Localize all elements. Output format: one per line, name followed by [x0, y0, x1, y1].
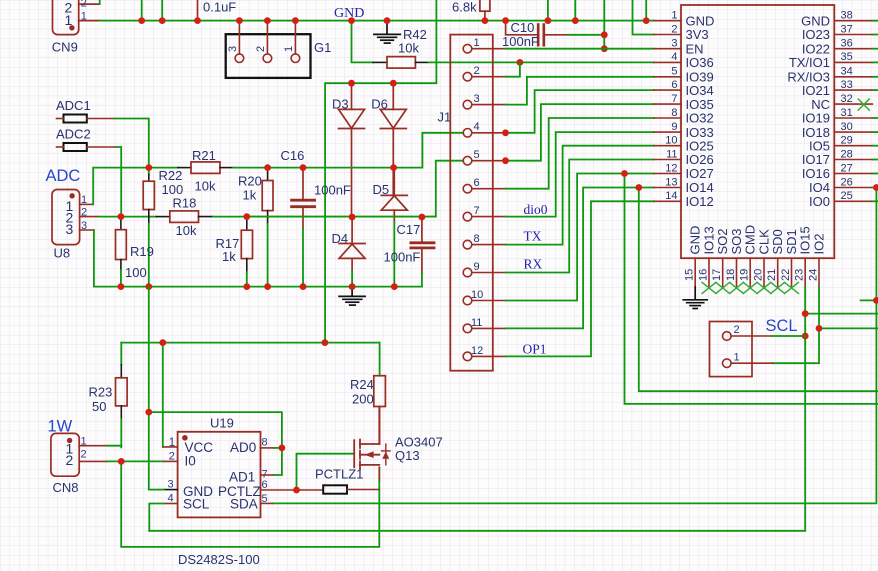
IC ESP32 module body	[681, 5, 834, 258]
svg-text:1k: 1k	[243, 188, 257, 203]
no-connect X on pin 17	[716, 282, 730, 293]
svg-text:100: 100	[125, 265, 147, 280]
pin U19-5 SDA	[261, 502, 273, 504]
svg-text:20: 20	[753, 269, 765, 281]
svg-text:IO19: IO19	[802, 111, 830, 126]
wire right stub pin 28	[872, 159, 878, 161]
svg-text:2: 2	[66, 452, 74, 468]
svg-text:SO2: SO2	[715, 228, 730, 254]
wire J1 p1 to EN	[506, 48, 654, 50]
pin 10 lead	[654, 145, 681, 147]
wire SCL conn pin2 to IO15 column	[773, 335, 806, 337]
wire CN9 pin1 lead	[79, 20, 100, 22]
svg-text:IO2: IO2	[812, 234, 827, 255]
wire J1 p7 dio0 to IO33	[506, 132, 654, 217]
svg-text:AD0: AD0	[230, 440, 256, 455]
svg-text:D4: D4	[332, 231, 349, 246]
wire VCC drop	[162, 343, 164, 447]
svg-text:3: 3	[168, 479, 174, 491]
svg-text:16: 16	[698, 269, 710, 281]
svg-text:4: 4	[671, 51, 677, 63]
pin 18 lead	[736, 258, 738, 287]
svg-text:SD0: SD0	[770, 229, 785, 254]
svg-text:IO32: IO32	[686, 111, 714, 126]
svg-text:R24: R24	[350, 377, 374, 392]
svg-text:12: 12	[665, 162, 677, 174]
wire I0 strong pullup loop	[121, 461, 379, 547]
resistor R21	[149, 167, 178, 169]
pin U19-7 AD1	[261, 474, 275, 476]
svg-text:IO27: IO27	[686, 166, 714, 181]
wire CN8 pin2	[79, 460, 107, 462]
junction dots DS2482 section	[118, 339, 329, 493]
svg-text:1: 1	[734, 352, 740, 364]
svg-text:CMD: CMD	[743, 225, 758, 255]
pin 9 lead	[654, 131, 681, 133]
svg-text:21: 21	[766, 269, 778, 281]
wire IO36 net y=62.4	[428, 61, 654, 63]
svg-text:15: 15	[684, 269, 696, 281]
wire IO4 to SDA column	[272, 188, 876, 504]
svg-text:TX: TX	[524, 229, 542, 244]
wire PCTLZ to gate	[297, 454, 355, 490]
svg-text:19: 19	[739, 269, 751, 281]
resistor R42	[352, 21, 374, 63]
wire GND drop	[148, 287, 150, 490]
svg-text:38: 38	[841, 10, 853, 22]
pin G1-1	[294, 21, 296, 54]
diode D5	[381, 168, 407, 222]
wire right stub pin 34	[872, 76, 878, 78]
pin 37 lead	[834, 34, 872, 36]
junction dots on top rail	[138, 17, 649, 66]
pin 14 lead	[654, 200, 681, 202]
svg-text:6.8k: 6.8k	[452, 0, 477, 15]
svg-text:I0: I0	[185, 454, 196, 469]
svg-text:2: 2	[81, 449, 87, 461]
resistor R24	[379, 343, 381, 376]
wire ADC2 to divider	[87, 146, 116, 148]
svg-text:100nF: 100nF	[314, 183, 351, 198]
svg-text:3V3: 3V3	[686, 27, 709, 42]
resistor R19	[120, 217, 122, 230]
svg-text:dio0: dio0	[524, 202, 548, 217]
svg-text:C17: C17	[397, 222, 421, 237]
wire right stub pin 37	[872, 34, 878, 36]
wire main GND rail y=20.6	[100, 20, 654, 22]
svg-text:8: 8	[474, 233, 480, 245]
svg-text:TX/IO1: TX/IO1	[789, 55, 830, 70]
capacitor 0.1uF lead	[197, 0, 199, 21]
svg-text:3: 3	[66, 221, 74, 237]
node C10 right junction	[601, 31, 608, 38]
wire Q13 drain down	[378, 467, 380, 480]
svg-text:6: 6	[474, 177, 480, 189]
wire SCL branch right	[805, 313, 878, 315]
pin 12 lead	[654, 173, 681, 175]
svg-text:1: 1	[283, 46, 295, 52]
pin 7 lead	[654, 103, 681, 105]
svg-text:AD1: AD1	[229, 470, 255, 485]
wire IO15/SCL net vertical	[149, 287, 805, 531]
wire J1 p4 to IO34	[506, 90, 654, 133]
svg-text:14: 14	[665, 190, 677, 202]
wire vertical drop x=547.9	[547, 0, 549, 21]
svg-text:2: 2	[255, 46, 267, 52]
svg-text:SDA: SDA	[230, 497, 258, 512]
pin U19-3 GND	[164, 489, 178, 491]
svg-text:28: 28	[841, 148, 853, 160]
svg-text:GND: GND	[801, 13, 830, 28]
svg-text:36: 36	[841, 38, 853, 50]
wire J1 p10 to IO27	[506, 174, 654, 301]
pin 5 lead	[654, 76, 681, 78]
svg-text:IO5: IO5	[809, 138, 830, 153]
svg-text:9: 9	[474, 261, 480, 273]
svg-text:33: 33	[841, 79, 853, 91]
wire right stub pin 27	[872, 173, 878, 175]
no-connect X on NC pin32	[702, 99, 869, 293]
junction dots J1 area	[502, 129, 642, 191]
no-connect X on pin 19	[743, 282, 757, 293]
pin U19-4 SCL	[164, 503, 178, 505]
svg-text:RX: RX	[524, 257, 543, 272]
svg-text:17: 17	[711, 269, 723, 281]
ground symbol (ESP pin15)	[683, 287, 707, 309]
wire J1 p12 OP1 to IO12	[506, 201, 654, 356]
svg-text:C16: C16	[281, 148, 305, 163]
svg-text:23: 23	[794, 269, 806, 281]
wire right stub pin 35	[872, 61, 878, 63]
pin 8 lead	[654, 117, 681, 119]
pin 38 lead	[834, 20, 872, 22]
pin 3 lead	[654, 48, 681, 50]
svg-text:IO16: IO16	[802, 166, 830, 181]
svg-text:GND: GND	[688, 226, 703, 255]
node CN9 pin1 dot	[69, 25, 74, 30]
no-connect X on pin 21	[771, 282, 785, 293]
component PCTLZ1	[297, 489, 324, 491]
pin 29 lead	[834, 145, 872, 147]
connector U8	[52, 190, 80, 245]
svg-text:12: 12	[471, 345, 483, 357]
svg-text:3: 3	[671, 38, 677, 50]
svg-text:13: 13	[665, 176, 677, 188]
svg-text:R20: R20	[238, 174, 262, 189]
wire ADC2 clamp net y=217	[247, 216, 436, 218]
svg-text:1: 1	[671, 10, 677, 22]
svg-text:25: 25	[841, 190, 853, 202]
svg-text:PCTLZ1: PCTLZ1	[315, 467, 363, 482]
wire J1 p11 to IO14	[506, 188, 654, 329]
connector G1 box	[226, 34, 311, 78]
svg-text:2: 2	[474, 65, 480, 77]
no-connect X on pin 18	[730, 282, 744, 293]
svg-text:IO25: IO25	[686, 138, 714, 153]
pin G1-3	[235, 21, 300, 63]
diode D4	[339, 217, 365, 271]
pin 11 lead	[654, 159, 681, 161]
no-connect X on pin 22	[785, 282, 799, 293]
svg-text:11: 11	[666, 148, 677, 160]
resistor R18	[156, 216, 170, 218]
svg-text:ADC1: ADC1	[56, 98, 91, 113]
svg-text:1: 1	[474, 37, 480, 49]
svg-text:30: 30	[841, 121, 853, 133]
pin 4 lead	[654, 61, 681, 63]
wire right stub pin 36	[872, 48, 878, 50]
wire 3V3 vertical x=436.4	[325, 0, 436, 343]
wire right stub pin 38	[872, 20, 878, 22]
wire vertical drop x=646.2	[645, 0, 647, 21]
pins J1 1-12	[463, 44, 505, 360]
svg-text:7: 7	[474, 205, 480, 217]
svg-text:IO14: IO14	[686, 180, 714, 195]
svg-text:DS2482S-100: DS2482S-100	[178, 552, 260, 567]
svg-text:4: 4	[474, 121, 480, 133]
svg-text:24: 24	[808, 269, 820, 281]
svg-text:R19: R19	[130, 244, 154, 259]
pin U19-6 PCTLZ	[261, 489, 297, 491]
svg-text:D6: D6	[371, 97, 388, 112]
capacitor C16	[302, 168, 304, 199]
junction dots ADC section	[118, 164, 426, 290]
wire right stub pin 30	[872, 131, 878, 133]
wire CN9 pin2 up	[99, 0, 101, 4]
svg-text:IO15: IO15	[798, 226, 813, 254]
pin 26 lead	[834, 187, 872, 189]
svg-text:R18: R18	[173, 196, 197, 211]
node D6 anode dot	[390, 80, 397, 87]
svg-text:35: 35	[841, 51, 853, 63]
wire CN9 pin2 lead	[79, 3, 100, 5]
svg-text:U19: U19	[210, 416, 234, 431]
wire IO27 branch down	[625, 174, 878, 404]
svg-text:CN8: CN8	[53, 480, 79, 495]
svg-text:IO17: IO17	[802, 152, 830, 167]
wire vertical 3V3 to ESP pin2	[633, 0, 654, 35]
svg-text:OP1: OP1	[523, 342, 547, 357]
wire J1 p3 to IO39	[506, 77, 654, 105]
pin 25 lead	[834, 200, 872, 202]
wire U8 pin2	[80, 216, 99, 218]
ground symbol (top)	[374, 21, 400, 43]
svg-text:R22: R22	[159, 168, 183, 183]
svg-text:SCL: SCL	[183, 497, 210, 512]
svg-text:1k: 1k	[222, 249, 236, 264]
svg-text:10: 10	[471, 289, 483, 301]
wire J1 p8 TX to IO25	[506, 146, 654, 245]
wire IO14 branch down	[639, 188, 878, 392]
wire I0 net	[121, 460, 164, 462]
svg-text:SCL: SCL	[766, 317, 798, 335]
wire J1 p5 to IO35	[506, 104, 654, 161]
svg-text:18: 18	[725, 269, 737, 281]
diode D3	[339, 83, 365, 217]
svg-text:GND: GND	[686, 13, 715, 28]
svg-text:IO12: IO12	[686, 194, 714, 209]
svg-text:2: 2	[81, 0, 87, 9]
resistor R22	[148, 168, 150, 175]
pin 13 lead	[654, 187, 681, 189]
svg-text:ADC2: ADC2	[56, 127, 91, 142]
svg-text:100nF: 100nF	[384, 250, 421, 265]
svg-text:100nF: 100nF	[502, 34, 539, 49]
svg-text:1: 1	[81, 11, 87, 23]
pin U19-2 I0	[164, 460, 178, 462]
svg-text:C10: C10	[511, 20, 535, 35]
svg-text:2: 2	[734, 324, 740, 336]
svg-text:29: 29	[841, 135, 853, 147]
svg-text:10k: 10k	[195, 179, 216, 194]
pin 30 lead	[834, 131, 872, 133]
svg-text:3: 3	[474, 93, 480, 105]
pin 31 lead	[834, 117, 872, 119]
pin G1-2	[266, 21, 268, 54]
wire AD0/AD1 tie	[149, 412, 282, 448]
svg-text:2: 2	[671, 23, 677, 35]
svg-text:8: 8	[671, 107, 677, 119]
capacitor C10	[506, 21, 568, 46]
svg-text:IO34: IO34	[686, 83, 714, 98]
svg-text:D5: D5	[373, 182, 390, 197]
pin 23 lead	[804, 258, 806, 287]
svg-text:U8: U8	[54, 246, 71, 261]
wire ADC1 net y=167.6	[233, 133, 463, 168]
svg-text:10k: 10k	[398, 41, 419, 56]
pin 21 lead	[777, 258, 779, 287]
connector J1 box	[450, 35, 493, 371]
svg-text:J1: J1	[438, 110, 452, 125]
wire right stub pin 31	[872, 117, 878, 119]
wire J1 p9 RX to IO26	[506, 160, 654, 273]
wire J1 p6 to IO32	[506, 118, 654, 189]
pin 28 lead	[834, 159, 872, 161]
wire vertical drop x=575.3	[574, 0, 576, 21]
svg-text:9: 9	[671, 121, 677, 133]
junction dots right column	[802, 184, 878, 339]
pin 34 lead	[834, 76, 872, 78]
svg-text:R21: R21	[192, 148, 216, 163]
wire vertical drop x=162.2	[161, 0, 163, 21]
wire U8 pin3	[80, 229, 94, 231]
svg-text:R23: R23	[89, 385, 113, 400]
wire U8 pin1	[80, 203, 94, 205]
svg-text:IO0: IO0	[809, 194, 830, 209]
svg-text:26: 26	[841, 176, 853, 188]
svg-text:6: 6	[671, 79, 677, 91]
svg-text:8: 8	[262, 437, 268, 449]
wire IO2 branch right	[819, 327, 878, 329]
svg-text:27: 27	[841, 162, 853, 174]
svg-text:10k: 10k	[176, 223, 197, 238]
svg-text:ADC: ADC	[46, 167, 81, 185]
pin 24 lead	[818, 258, 820, 287]
connector CN8	[51, 433, 79, 476]
wire vertical EN x=604.3	[603, 0, 605, 49]
resistor R23	[120, 343, 122, 365]
transistor Q13 AO3407	[354, 407, 390, 470]
svg-text:7: 7	[671, 93, 677, 105]
pin 6 lead	[654, 89, 681, 91]
pin 1 lead	[654, 20, 681, 22]
wire right stub pin 33	[872, 89, 878, 91]
svg-text:11: 11	[471, 317, 482, 329]
pin 15 lead	[694, 258, 696, 287]
svg-text:IO4: IO4	[809, 180, 830, 195]
pin 20 lead	[763, 258, 765, 287]
wire vertical drop x=141.7	[141, 0, 143, 21]
svg-text:NC: NC	[811, 97, 830, 112]
svg-text:IO26: IO26	[686, 152, 714, 167]
svg-text:IO35: IO35	[686, 97, 714, 112]
no-connect X on pin 16	[702, 282, 716, 293]
node EN junction	[601, 45, 608, 52]
pin U19-1 VCC	[163, 446, 178, 448]
pin 19 lead	[749, 258, 751, 287]
resistor R20	[267, 168, 269, 181]
pin 33 lead	[834, 89, 872, 91]
resistor 6.8k	[480, 0, 490, 21]
pin 16 lead	[708, 258, 710, 287]
svg-text:5: 5	[474, 149, 480, 161]
diode D6	[380, 83, 406, 195]
svg-text:IO23: IO23	[802, 27, 830, 42]
wire IO2 vertical to SCL conn pin1	[773, 287, 820, 363]
pin U19-8 AD0	[261, 447, 275, 449]
resistor R17	[246, 217, 248, 231]
svg-text:31: 31	[841, 107, 853, 119]
wire ADC1 to divider	[87, 118, 114, 120]
svg-text:G1: G1	[314, 40, 331, 55]
svg-text:50: 50	[92, 399, 106, 414]
node IO36/J1p2 junction	[517, 59, 524, 66]
svg-text:Q13: Q13	[395, 448, 420, 463]
svg-text:22: 22	[780, 269, 792, 281]
svg-text:CN9: CN9	[52, 40, 78, 55]
capacitor C17	[421, 217, 423, 242]
pin 32 lead	[834, 103, 872, 105]
wire IO4 branch right	[861, 299, 878, 301]
svg-text:34: 34	[841, 66, 853, 78]
svg-text:32: 32	[841, 93, 853, 105]
svg-text:IO36: IO36	[686, 55, 714, 70]
svg-text:1: 1	[65, 12, 73, 28]
wire right stub pin 29	[872, 145, 878, 147]
svg-text:D3: D3	[332, 97, 349, 112]
ground symbol (ADC rail)	[339, 287, 365, 306]
pin 17 lead	[722, 258, 724, 287]
IC U19 DS2482	[178, 432, 261, 518]
pin 36 lead	[834, 48, 872, 50]
wire right stub pin 25	[872, 200, 878, 202]
svg-text:200: 200	[352, 392, 374, 407]
wire 3V3 local rail y=342.6	[121, 342, 379, 344]
node D3 anode dot	[348, 80, 355, 87]
pin 22 lead	[791, 258, 793, 287]
pin 27 lead	[834, 173, 872, 175]
connector SCL box	[710, 322, 753, 377]
pin 35 lead	[834, 61, 872, 63]
connector CN9	[53, 0, 100, 35]
no-connect X on pin 20	[757, 282, 771, 293]
svg-text:3: 3	[227, 46, 239, 52]
svg-text:5: 5	[671, 66, 677, 78]
svg-text:IO21: IO21	[802, 83, 830, 98]
svg-text:37: 37	[841, 23, 853, 35]
pin 2 lead	[654, 34, 681, 36]
svg-text:10: 10	[665, 135, 677, 147]
